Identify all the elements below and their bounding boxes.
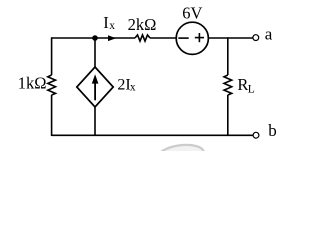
wire top rail left segment bbox=[52, 37, 135, 39]
svg-text:I: I bbox=[103, 13, 109, 32]
svg-text:a: a bbox=[265, 25, 273, 44]
current arrow Ix on top wire bbox=[108, 35, 116, 41]
arrow inside diamond (pointing up) bbox=[94, 81, 96, 100]
svg-text:L: L bbox=[248, 84, 255, 96]
wire bottom rail bbox=[52, 134, 254, 136]
voltage source 6V (circle) bbox=[176, 22, 208, 54]
wire from 2kOhm to 6V source bbox=[150, 37, 176, 39]
terminal a (open circle) bbox=[253, 35, 259, 41]
terminal b (open circle) bbox=[253, 132, 259, 138]
svg-text:b: b bbox=[268, 121, 277, 140]
wire middle branch upper bbox=[94, 38, 96, 67]
svg-text:x: x bbox=[109, 20, 115, 32]
svg-text:2I: 2I bbox=[117, 76, 130, 93]
minus sign inside source bbox=[178, 37, 188, 39]
wire from source to terminal a bbox=[208, 37, 253, 39]
svg-text:2kΩ: 2kΩ bbox=[128, 15, 157, 34]
resistor 2kOhm (horizontal zigzag) bbox=[135, 35, 150, 41]
dependent current source 2Ix (diamond) bbox=[77, 67, 113, 107]
wire right branch lower bbox=[227, 95, 229, 136]
resistor 1kOhm (vertical zigzag) bbox=[48, 75, 56, 95]
wire left branch upper bbox=[51, 37, 53, 75]
watermark arc (faint logo at bottom) bbox=[156, 142, 205, 168]
svg-text:6V: 6V bbox=[182, 4, 202, 23]
wire middle branch lower bbox=[94, 107, 96, 136]
svg-text:1kΩ: 1kΩ bbox=[18, 74, 47, 93]
resistor RL (vertical zigzag) bbox=[224, 75, 232, 95]
node dot (top junction) bbox=[92, 35, 98, 41]
svg-text:x: x bbox=[130, 81, 136, 93]
wire left branch lower bbox=[51, 95, 53, 136]
svg-text:R: R bbox=[237, 75, 248, 94]
plus sign inside source bbox=[195, 37, 204, 39]
wire right branch upper bbox=[227, 37, 229, 75]
